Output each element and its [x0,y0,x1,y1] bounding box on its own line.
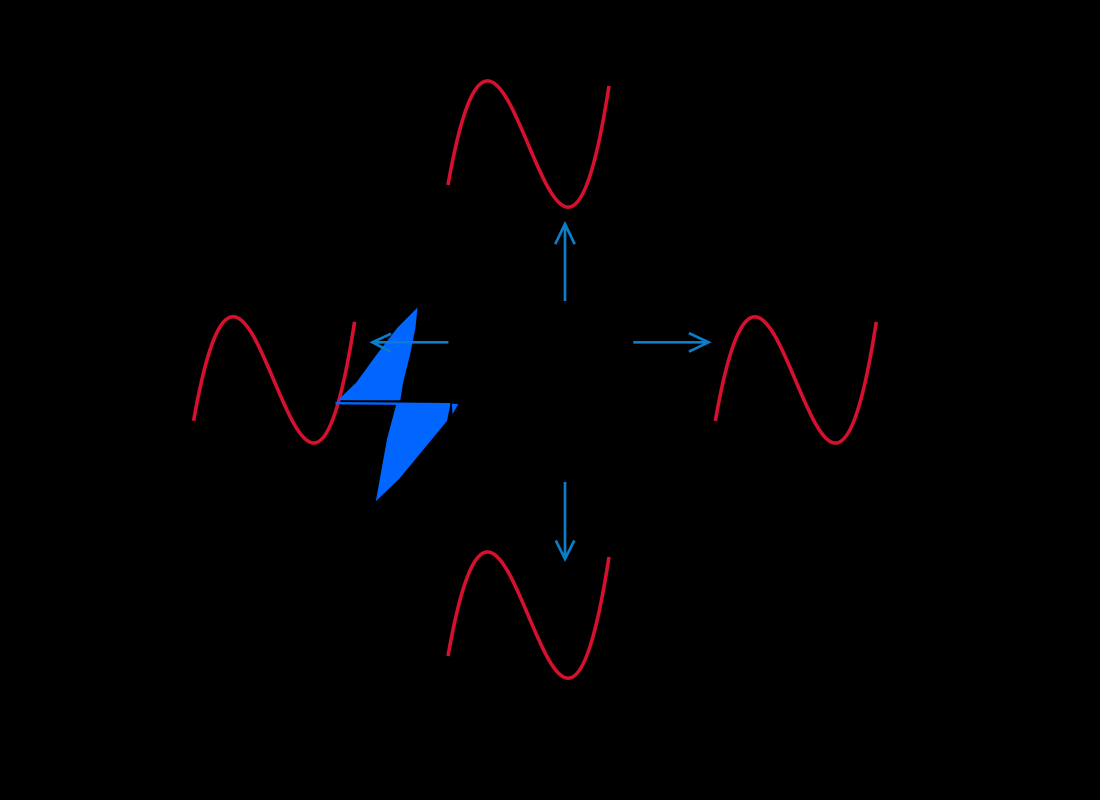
wave bottom (scattered wave, down) [448,552,609,678]
lightning bolt upper triangle (scatterer) [338,308,418,401]
lightning bolt tip sliver [452,404,459,415]
lightning bolt middle line [336,403,451,404]
wave left (incident wave) [194,317,355,443]
wave top (scattered wave, up) [448,81,609,207]
lightning bolt lower triangle [376,404,451,501]
arrow up [555,224,575,301]
arrow down [556,482,575,559]
arrow left (drawn over bolt) [372,334,448,352]
arrow right [633,333,708,352]
wave right (scattered wave, right) [715,317,876,443]
